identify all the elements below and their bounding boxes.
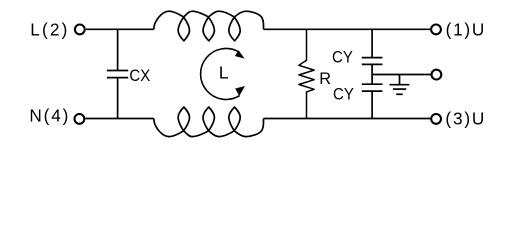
wire L(2) to CX node	[86, 28, 154, 30]
terminal (1)U circle	[431, 25, 441, 35]
terminal N(4) circle	[75, 114, 85, 124]
capacitor CX upper stub	[117, 29, 119, 70]
terminal (3)U circle	[431, 114, 441, 124]
svg-text:CY: CY	[333, 86, 354, 104]
capacitor CX lower stub	[117, 78, 119, 119]
inductor L arrowhead top	[235, 50, 245, 58]
svg-text:CX: CX	[129, 68, 150, 86]
ground bar 2	[393, 88, 406, 90]
wire between CY caps	[371, 64, 373, 84]
capacitor CY bottom stub	[371, 91, 373, 118]
terminal L(2) circle	[75, 25, 85, 35]
earth terminal circle	[432, 70, 442, 80]
wire N(4) to CX node	[86, 118, 154, 120]
capacitor CY top plates	[362, 57, 383, 59]
wire bottom coil to (3)U	[264, 118, 432, 120]
svg-text:N(4): N(4)	[29, 106, 68, 126]
inductor L arrowhead bottom	[235, 86, 245, 96]
capacitor CY top stub	[371, 29, 373, 57]
inductor L circular arrow arc	[201, 48, 240, 99]
inductor L top winding	[154, 11, 264, 41]
ground bar 3	[396, 93, 403, 95]
ground stub	[399, 75, 401, 85]
svg-text:L: L	[219, 63, 229, 83]
wire CY midpoint to earth terminal	[372, 74, 432, 76]
resistor R	[299, 29, 314, 118]
capacitor CX plates	[107, 70, 128, 72]
capacitor CY bottom plates	[362, 83, 383, 85]
svg-text:CY: CY	[332, 49, 353, 67]
wire top coil to (1)U	[264, 28, 432, 30]
ground bar 1	[390, 84, 410, 86]
svg-text:R: R	[319, 70, 331, 88]
inductor L bottom winding	[154, 107, 264, 137]
